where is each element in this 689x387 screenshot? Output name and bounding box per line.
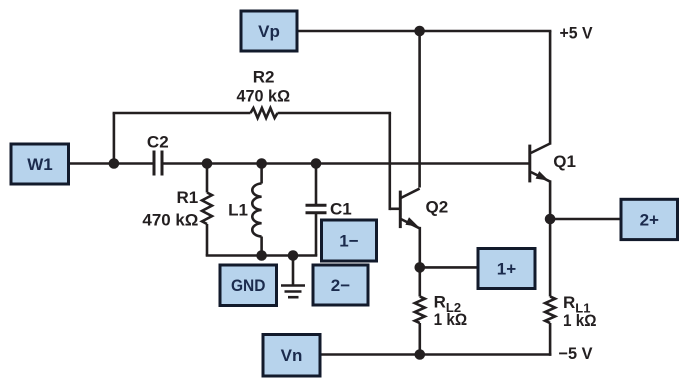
- node Q2 emitter junction: [415, 262, 426, 273]
- node C1 top junction: [311, 158, 322, 169]
- wire tank bottom rail: [206, 254, 318, 257]
- svg-text:1+: 1+: [497, 260, 516, 279]
- resistor RL2: [415, 297, 425, 355]
- wire R2 branch riser at W1 node: [113, 113, 116, 164]
- terminal box 1-: [322, 220, 377, 261]
- svg-text:2+: 2+: [640, 210, 659, 229]
- terminal box Vp: [241, 11, 297, 51]
- svg-text:Vp: Vp: [258, 22, 280, 41]
- wire main rail left from W1 to C2: [69, 162, 153, 165]
- wire R2 right lead: [278, 112, 392, 115]
- wire Q2 emitter down / RL2 top lead: [418, 227, 421, 297]
- wire bottom rail Vn to RL1: [321, 353, 551, 356]
- svg-text:+5 V: +5 V: [560, 23, 594, 42]
- svg-text:470 kΩ: 470 kΩ: [142, 210, 198, 229]
- terminal box GND: [220, 265, 277, 306]
- inductor L1: [252, 164, 261, 256]
- capacitor C2: [154, 151, 162, 176]
- node Q1 emitter junction: [545, 214, 556, 225]
- node ground tap junction: [288, 250, 299, 261]
- node Q2 collector at top rail: [414, 26, 425, 37]
- wire R2 left lead: [113, 112, 251, 115]
- svg-text:1 kΩ: 1 kΩ: [563, 311, 597, 330]
- svg-text:Q1: Q1: [553, 152, 576, 171]
- node L1 bottom junction: [256, 250, 267, 261]
- svg-text:C2: C2: [147, 133, 169, 152]
- wire main rail from C2 to Q1 base: [163, 162, 528, 165]
- node L1 top junction: [256, 158, 267, 169]
- transistor Q2: [400, 31, 420, 228]
- node RL2 bottom junction: [415, 349, 426, 360]
- node R1 top junction: [202, 158, 213, 169]
- transistor Q1: [530, 31, 550, 297]
- wire top rail Vp to +5V corner: [297, 30, 551, 33]
- svg-text:1 kΩ: 1 kΩ: [434, 310, 468, 329]
- svg-text:W1: W1: [27, 155, 53, 174]
- ground: [281, 256, 305, 298]
- svg-text:470 kΩ: 470 kΩ: [237, 86, 291, 105]
- wire Q2 base connector: [390, 208, 399, 211]
- svg-text:−5 V: −5 V: [559, 344, 594, 363]
- resistor RL1: [545, 297, 555, 356]
- svg-text:2−: 2−: [331, 276, 350, 295]
- terminal box 2-: [313, 265, 368, 305]
- svg-text:Vn: Vn: [281, 346, 303, 365]
- svg-text:R1: R1: [176, 188, 198, 207]
- terminal box 1+: [478, 249, 535, 289]
- svg-text:R2: R2: [253, 67, 275, 86]
- wire R2 branch down to Q2 base: [388, 113, 391, 210]
- svg-text:Q2: Q2: [426, 197, 449, 216]
- terminal box 2+: [621, 199, 678, 239]
- wire to 2+: [550, 218, 621, 221]
- resistor R2: [251, 108, 278, 118]
- svg-text:1−: 1−: [339, 232, 358, 251]
- node W1 junction: [109, 158, 120, 169]
- svg-text:C1: C1: [330, 200, 352, 219]
- wire to 1+: [420, 266, 478, 269]
- svg-text:L1: L1: [228, 200, 248, 219]
- terminal box W1: [11, 144, 69, 184]
- svg-text:GND: GND: [231, 276, 266, 295]
- capacitor C1: [306, 164, 327, 256]
- terminal box Vn: [263, 335, 320, 377]
- resistor R1: [202, 164, 212, 256]
